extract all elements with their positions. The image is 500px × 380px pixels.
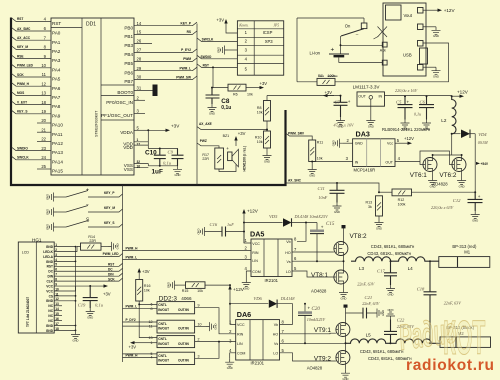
op-amp DA6 IR2101 xyxy=(236,310,280,365)
svg-text:PA7: PA7 xyxy=(52,95,61,100)
ground: MCU VSS gnd xyxy=(173,166,182,177)
capacitor C5 220u xyxy=(398,96,413,119)
svg-text:NC: NC xyxy=(48,309,53,313)
svg-text:CNTL: CNTL xyxy=(158,303,167,307)
svg-text:1uF: 1uF xyxy=(152,169,163,176)
svg-text:28: 28 xyxy=(137,57,142,62)
ground: R11 gnd xyxy=(311,161,313,163)
svg-text:VCC: VCC xyxy=(252,242,260,246)
svg-text:VT6:2: VT6:2 xyxy=(439,172,456,179)
ground: VT8:1 source xyxy=(339,289,348,300)
svg-text:VT9:2: VT9:2 xyxy=(314,355,331,362)
svg-text:L4: L4 xyxy=(408,266,414,271)
wire: HG1 gnd bus xyxy=(75,247,77,331)
wire: PWM_L to DA5 LIN xyxy=(123,259,252,261)
svg-text:PWM_SRV: PWM_SRV xyxy=(288,132,305,136)
capacitor C22 22nF xyxy=(390,342,392,344)
resistor R10 10k xyxy=(266,121,268,131)
svg-text:NC: NC xyxy=(48,304,53,308)
svg-text:radiokot.ru: radiokot.ru xyxy=(406,357,495,374)
svg-text:RLB0914-221KL 220мкГн: RLB0914-221KL 220мкГн xyxy=(382,127,431,132)
wire: DA3 pin3 IN xyxy=(312,161,352,163)
svg-text:PA6: PA6 xyxy=(52,86,61,91)
svg-text:SWDIO: SWDIO xyxy=(17,146,28,150)
svg-text:VT8:1: VT8:1 xyxy=(311,272,328,279)
svg-text:PA15: PA15 xyxy=(52,169,63,174)
svg-text:BP-313 (red): BP-313 (red) xyxy=(452,244,477,249)
inductor L3 680uH xyxy=(351,257,393,261)
svg-text:20: 20 xyxy=(41,118,46,123)
svg-text:DA3: DA3 xyxy=(356,130,370,139)
svg-text:+3V: +3V xyxy=(260,81,268,86)
svg-text:9: 9 xyxy=(198,304,200,308)
connector USB module xyxy=(383,3,428,76)
svg-text:3k: 3k xyxy=(368,205,372,209)
svg-text:IN/OUT: IN/OUT xyxy=(158,326,169,330)
svg-text:DIN: DIN xyxy=(48,275,54,279)
svg-text:HO: HO xyxy=(273,333,279,337)
svg-text:PWM_H: PWM_H xyxy=(126,246,139,250)
svg-text:PWM_H: PWM_H xyxy=(126,353,139,357)
svg-text:22R: 22R xyxy=(202,157,209,161)
svg-text:RST: RST xyxy=(108,263,114,267)
ground: USB pad4 gnd xyxy=(423,66,436,68)
wire: MCU pin 12 PA6 xyxy=(12,83,52,87)
wire: lower vertical bus xyxy=(122,185,124,362)
svg-text:25: 25 xyxy=(41,164,46,169)
svg-text:Vout: Vout xyxy=(404,13,413,18)
wire: DA6 LO to VT9:2 gate xyxy=(280,353,336,361)
svg-text:IN/OUT: IN/OUT xyxy=(158,308,169,312)
wire: HG1 RST to bus xyxy=(54,263,122,266)
svg-text:GND: GND xyxy=(355,142,363,146)
ground: C19 gnd xyxy=(86,308,95,319)
svg-text:PA3: PA3 xyxy=(52,58,61,63)
svg-text:IN: IN xyxy=(355,161,359,165)
svg-text:DL4148: DL4148 xyxy=(280,296,296,301)
svg-text:GND: GND xyxy=(46,329,54,333)
wire: battery plus to Akk pad xyxy=(340,44,342,46)
svg-text:+: + xyxy=(86,188,89,194)
svg-text:SCK: SCK xyxy=(17,73,24,77)
svg-text:PWM_H: PWM_H xyxy=(17,82,30,86)
diode X mark (no connection cross) xyxy=(378,27,388,38)
svg-text:HCM1206 (с rez.): HCM1206 (с rez.) xyxy=(243,146,247,172)
svg-text:DD1: DD1 xyxy=(86,22,96,28)
capacitor C19 0.1u xyxy=(89,285,91,287)
svg-text:PB1: PB1 xyxy=(124,34,133,39)
wire: buzzer +3V xyxy=(235,140,237,146)
wire: HG1 LED-A to PWM_LED xyxy=(54,254,122,257)
svg-text:VSS: VSS xyxy=(124,167,133,172)
svg-text:12: 12 xyxy=(41,81,46,86)
svg-text:PWM_L: PWM_L xyxy=(179,67,191,71)
svg-text:PA4: PA4 xyxy=(52,67,61,72)
wire: DA5 Vs to L3 node xyxy=(292,260,344,262)
svg-text:L2: L2 xyxy=(441,118,447,123)
ground: R14 gnd xyxy=(101,245,108,247)
svg-text:+3V: +3V xyxy=(129,344,137,349)
svg-text:CNTL: CNTL xyxy=(158,354,167,358)
svg-text:PWM_LED: PWM_LED xyxy=(17,64,34,68)
wire: MCU pin 10 PA4 xyxy=(12,64,52,68)
regulator DA LM1117-3.3V xyxy=(353,84,385,106)
transistor VT6:1 AO4828 xyxy=(423,158,437,172)
svg-text:13: 13 xyxy=(41,91,46,96)
svg-text:PWM_SW: PWM_SW xyxy=(176,75,191,79)
op-amp DA3 MCP1416R xyxy=(353,130,395,173)
svg-text:On: On xyxy=(345,23,351,28)
svg-text:C16: C16 xyxy=(210,222,218,227)
inductor L6 680uH xyxy=(391,339,441,343)
svg-text:30: 30 xyxy=(137,75,142,80)
svg-text:L3: L3 xyxy=(359,266,365,271)
wire: mid vertical bus xyxy=(196,24,198,186)
wire: MCU pin 6 PA0 xyxy=(12,28,52,32)
wire: MCU pin 9 PA3 xyxy=(12,55,52,59)
svg-text:VCC: VCC xyxy=(237,323,245,327)
op-amp U1: microcontroller DD1 STM32F030K6T xyxy=(51,18,134,175)
wire: battery minus down to R7 line xyxy=(296,18,298,82)
svg-text:VDDA: VDDA xyxy=(120,130,134,135)
svg-text:OUT: OUT xyxy=(358,94,366,98)
svg-text:VT8:2: VT8:2 xyxy=(350,233,367,240)
svg-text:DC: DC xyxy=(108,267,113,271)
svg-text:LIN: LIN xyxy=(252,259,258,263)
wire: HG1 DC to bus xyxy=(54,268,122,271)
wire: DA5 LO to VT8:1 gate xyxy=(292,271,334,277)
wire: DD2 cell3 wiring xyxy=(139,337,157,339)
svg-text:RIN: RIN xyxy=(252,251,259,255)
svg-text:18: 18 xyxy=(41,100,46,105)
ground: R10 gnd xyxy=(266,148,268,152)
svg-text:AX_SMC: AX_SMC xyxy=(17,27,31,31)
svg-text:−: − xyxy=(86,203,89,209)
svg-text:C7: C7 xyxy=(335,99,341,104)
svg-text:VD6: VD6 xyxy=(253,296,262,301)
svg-text:LED-A: LED-A xyxy=(43,255,53,259)
svg-text:RS: RS xyxy=(187,30,191,34)
svg-text:+12V: +12V xyxy=(233,287,245,292)
svg-text:+: + xyxy=(478,194,481,199)
transistor VT8:2 AO4828 xyxy=(334,242,348,256)
svg-text:+54V: +54V xyxy=(481,162,489,166)
svg-text:VCC: VCC xyxy=(46,289,53,293)
svg-text:COM: COM xyxy=(237,352,245,356)
svg-text:1uF: 1uF xyxy=(227,222,234,227)
svg-text:GND: GND xyxy=(46,299,54,303)
svg-text:LED-K: LED-K xyxy=(43,250,53,254)
svg-text:PB5: PB5 xyxy=(124,61,133,66)
svg-text:+3V: +3V xyxy=(171,123,180,128)
wire: MCU pin 11 PA5 xyxy=(12,74,52,78)
ground: C12 gnd xyxy=(471,211,480,222)
svg-text:OUT/IN: OUT/IN xyxy=(178,342,189,346)
svg-text:CS: CS xyxy=(49,294,53,298)
svg-text:+: + xyxy=(308,305,311,310)
capacitor C7 47u xyxy=(334,96,348,117)
ground: C5 gnd xyxy=(401,120,410,131)
svg-text:AO4828: AO4828 xyxy=(311,289,327,294)
wire: MCU pin 18 PA8 xyxy=(12,101,52,105)
svg-text:C18: C18 xyxy=(417,286,425,291)
capacitor C20 10mkX25V xyxy=(304,303,306,305)
resistor R15 10k xyxy=(167,281,178,290)
ground: USB pad2 gnd xyxy=(423,26,436,28)
svg-text:NC: NC xyxy=(48,319,53,323)
svg-text:LIN: LIN xyxy=(237,342,243,346)
svg-text:KEY_P: KEY_P xyxy=(104,191,115,195)
svg-text:PWM_LED: PWM_LED xyxy=(103,252,120,256)
svg-text:KEY_M: KEY_M xyxy=(104,206,115,210)
svg-text:R11: R11 xyxy=(317,140,323,144)
svg-text:PA2: PA2 xyxy=(52,49,61,54)
resistor R6 10k xyxy=(213,67,228,87)
svg-text:AX_SNC: AX_SNC xyxy=(288,179,302,183)
svg-text:CD43, 681KL, 680мкГн: CD43, 681KL, 680мкГн xyxy=(360,349,404,354)
svg-text:LO: LO xyxy=(286,270,291,274)
svg-text:RST: RST xyxy=(17,17,23,21)
wire: MCU pin 21 PA11 xyxy=(37,131,51,133)
svg-text:PF1/OSC_OUT: PF1/OSC_OUT xyxy=(101,113,133,118)
transistor VT9:2 AO4828 xyxy=(336,351,350,365)
svg-text:C9: C9 xyxy=(168,149,174,154)
wire: PWM_H to DA5 RIN xyxy=(123,250,252,252)
svg-text:Vs: Vs xyxy=(286,260,290,264)
svg-text:CD43, 681KL, 680мкГн: CD43, 681KL, 680мкГн xyxy=(371,244,415,249)
capacitor C9 0.1u xyxy=(172,149,184,166)
diode VD5 DL4148 xyxy=(244,222,283,224)
svg-text:DL4148 10mkX25V: DL4148 10mkX25V xyxy=(294,214,329,219)
svg-text:19: 19 xyxy=(41,109,46,114)
svg-text:PA11: PA11 xyxy=(52,132,63,137)
svg-text:+: + xyxy=(331,47,335,54)
wire: DD2 cell4 wiring xyxy=(123,354,158,358)
wire: JP5 pin5 RST xyxy=(197,64,237,68)
ground: R13 gnd xyxy=(378,216,380,219)
capacitor C15 10mkX25V xyxy=(306,223,317,262)
svg-text:NC: NC xyxy=(48,314,53,318)
svg-text:10k: 10k xyxy=(257,140,263,144)
switch DD2 cell pins 6/8/9 xyxy=(157,302,195,314)
svg-text:C19: C19 xyxy=(78,302,86,307)
svg-text:PWM_L: PWM_L xyxy=(126,255,138,259)
resistor R12 100k xyxy=(378,191,380,193)
svg-text:SWCLK: SWCLK xyxy=(202,38,214,42)
transistor VT6:2 AO4828 xyxy=(452,158,466,172)
ground: VT6:2 source xyxy=(461,172,463,178)
switch On (battery) xyxy=(297,17,364,19)
svg-text:10k: 10k xyxy=(317,156,323,160)
svg-text:OUT/IN: OUT/IN xyxy=(178,308,189,312)
resistor R16 10k xyxy=(138,272,140,280)
ground: DA5 COM xyxy=(246,271,251,279)
svg-text:+3V: +3V xyxy=(142,269,150,274)
svg-text:10mkX25V: 10mkX25V xyxy=(307,317,326,322)
wire: +54V rail down to C12 xyxy=(474,134,476,200)
ground: LM1117 gnd xyxy=(370,106,372,117)
switch key KEY_M xyxy=(46,208,57,217)
ground: DA6 COM xyxy=(230,353,236,359)
wire: MCU pin 20 PA10 xyxy=(37,122,51,124)
wire: bus tap to R8/R10 junction xyxy=(197,127,267,130)
svg-text:KEY_S: KEY_S xyxy=(17,110,27,114)
op-amp DA5 IR2101 xyxy=(250,230,292,283)
wire: left section border bus xyxy=(11,18,286,186)
svg-text:17: 17 xyxy=(137,142,141,146)
connector HG1 LCD TFT xyxy=(18,237,54,333)
wire: MCU pin 13 PA7 xyxy=(12,92,52,96)
svg-text:C20: C20 xyxy=(312,307,321,312)
svg-text:IN/OUT: IN/OUT xyxy=(158,358,169,362)
wire: +12V rail right of LM1117 xyxy=(385,95,453,97)
svg-text:PB4: PB4 xyxy=(124,52,133,57)
switch DD2 cell pins 12/11/10 xyxy=(157,320,195,333)
svg-text:+12V: +12V xyxy=(404,136,414,141)
svg-text:M1: M1 xyxy=(464,249,470,254)
svg-text:XP3: XP3 xyxy=(265,39,274,44)
capacitor C12 220u 63V xyxy=(468,192,483,211)
svg-text:DIN: DIN xyxy=(108,272,114,276)
svg-text:MCP1416R: MCP1416R xyxy=(354,168,376,173)
svg-text:C17: C17 xyxy=(377,269,385,274)
ground: HG1 gnd xyxy=(71,331,80,342)
svg-text:VD4: VD4 xyxy=(478,132,487,137)
svg-text:10: 10 xyxy=(41,63,46,68)
wire: MCU pin 19 PA9 xyxy=(12,110,52,114)
svg-text:V_EXT: V_EXT xyxy=(17,100,27,104)
resistor R14 22R (LED-K) xyxy=(54,246,80,251)
svg-text:VD5: VD5 xyxy=(269,214,278,219)
svg-text:COM: COM xyxy=(252,270,260,274)
svg-text:USB: USB xyxy=(403,53,412,58)
svg-text:14: 14 xyxy=(137,21,142,26)
resistor R17 22R xyxy=(215,148,224,169)
svg-text:RST: RST xyxy=(203,64,209,68)
svg-text:PA10: PA10 xyxy=(52,123,63,128)
svg-text:RST: RST xyxy=(47,265,53,269)
svg-text:+3V: +3V xyxy=(325,90,333,95)
wire: battery minus xyxy=(339,57,383,62)
svg-text:C11: C11 xyxy=(318,186,325,191)
svg-text:C5: C5 xyxy=(396,100,402,105)
svg-text:PA14: PA14 xyxy=(52,159,63,164)
svg-text:DA6: DA6 xyxy=(237,310,251,319)
svg-text:PA1: PA1 xyxy=(52,40,61,45)
svg-text:MOS: MOS xyxy=(17,91,24,95)
ground: DA3 pin2 gnd xyxy=(343,142,353,144)
wire: bus tap to buzzer xyxy=(197,143,219,148)
svg-text:PWZ: PWZ xyxy=(200,139,207,143)
switch key KEY_P xyxy=(46,193,57,202)
wire: DA3 pin4 OUT to VT6 gates xyxy=(395,151,452,165)
ground: C7 gnd xyxy=(336,117,345,128)
wire: +12V feed DA5 xyxy=(243,213,245,243)
svg-text:CD43, 681KL, 680мкГн: CD43, 681KL, 680мкГн xyxy=(367,251,411,256)
svg-text:SWDIO: SWDIO xyxy=(201,55,212,59)
wire: MCU pin 8 PA2 xyxy=(12,46,52,50)
switch DD2 cell pins 13/1/2 xyxy=(157,336,195,348)
svg-text:100k: 100k xyxy=(398,202,406,206)
svg-text:RSE: RSE xyxy=(17,54,24,58)
ground: JP5 pin3 xyxy=(228,49,237,51)
svg-text:R10: R10 xyxy=(255,136,262,140)
svg-text:C8: C8 xyxy=(221,98,230,105)
svg-text:23: 23 xyxy=(41,146,46,151)
wire: VT8:2 drain node xyxy=(343,228,345,242)
wire: +3.3V rail from LM1117 OUT xyxy=(267,95,341,97)
ground: C17 gnd xyxy=(386,285,395,296)
wire: VT9 drain rail xyxy=(345,313,347,370)
svg-text:3: 3 xyxy=(198,354,200,358)
transistor VT8:1 AO4828 xyxy=(334,270,348,284)
svg-text:LO: LO xyxy=(273,352,278,356)
svg-text:PF0/OSC_IN: PF0/OSC_IN xyxy=(106,100,133,105)
buzzer BZ1 HCM1206 xyxy=(228,152,232,161)
svg-text:C10: C10 xyxy=(145,150,157,157)
wire: JP5 pin4 SWDIO xyxy=(197,55,237,59)
svg-text:C21: C21 xyxy=(365,295,373,300)
svg-text:CNTL: CNTL xyxy=(158,337,167,341)
svg-text:PA5: PA5 xyxy=(52,77,61,82)
svg-text:10k: 10k xyxy=(197,289,203,293)
svg-text:+12V: +12V xyxy=(457,89,469,94)
svg-text:PB6: PB6 xyxy=(124,70,133,75)
svg-text:+12V: +12V xyxy=(444,8,456,13)
svg-text:IR2101: IR2101 xyxy=(251,361,265,366)
ground: C11 gnd xyxy=(333,203,342,214)
diode VD4 OS1M xyxy=(452,133,461,135)
svg-text:LM1117-3.3V: LM1117-3.3V xyxy=(353,84,381,89)
svg-text:VT9:1: VT9:1 xyxy=(314,327,331,334)
svg-text:R8: R8 xyxy=(257,106,262,110)
resistor R7 100k xyxy=(297,81,317,83)
svg-text:CNTL: CNTL xyxy=(158,322,167,326)
svg-text:AX_ACC: AX_ACC xyxy=(17,36,31,40)
svg-text:Vb: Vb xyxy=(286,240,290,244)
svg-text:15: 15 xyxy=(137,30,142,35)
svg-text:GND: GND xyxy=(46,260,54,264)
svg-text:31: 31 xyxy=(137,86,142,91)
resistor R8 10k xyxy=(266,96,268,101)
svg-text:29: 29 xyxy=(137,66,142,71)
svg-text:IN: IN xyxy=(379,94,383,98)
wire: DA6 HO to VT9:1 gate xyxy=(280,332,336,335)
svg-text:DA5: DA5 xyxy=(250,230,264,239)
svg-text:0,1u: 0,1u xyxy=(221,105,231,111)
svg-text:RIN: RIN xyxy=(237,333,244,337)
svg-text:PA9: PA9 xyxy=(52,113,61,118)
ground: C6 gnd xyxy=(422,120,431,131)
svg-text:OUT: OUT xyxy=(385,161,393,165)
svg-text:IR2101: IR2101 xyxy=(265,278,279,283)
svg-text:11: 11 xyxy=(42,72,47,77)
svg-text:26: 26 xyxy=(137,39,142,44)
svg-text:+3V: +3V xyxy=(216,17,224,22)
svg-text:–: – xyxy=(356,32,359,37)
wire: AX_SMC line xyxy=(286,183,380,192)
wire: MCU pin 22 PA12 xyxy=(37,140,51,142)
svg-text:+: + xyxy=(321,225,324,230)
switch key KEY_S xyxy=(46,223,57,232)
svg-text:+3V: +3V xyxy=(238,131,246,136)
svg-text:AX_AXE: AX_AXE xyxy=(199,122,212,126)
svg-text:VDD: VDD xyxy=(123,145,133,150)
wire: JP5 pin1 to +3V xyxy=(226,25,237,33)
svg-text:+: + xyxy=(226,146,229,151)
svg-text:+: + xyxy=(407,100,410,105)
svg-text:PWM_L: PWM_L xyxy=(126,305,138,309)
